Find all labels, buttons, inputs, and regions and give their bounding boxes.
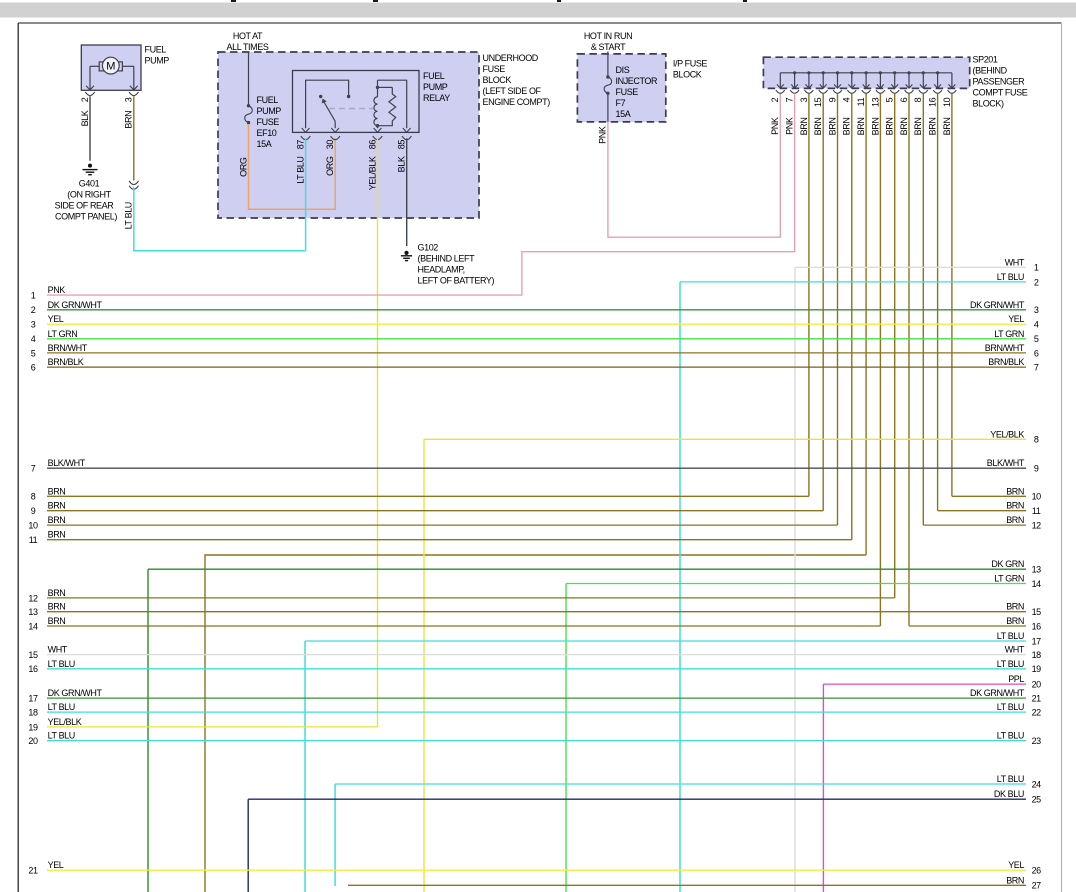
svg-text:FUSE: FUSE	[257, 117, 280, 127]
underhood fuse block label	[483, 53, 551, 107]
wire BLK/WHT row y=468.2	[47, 467, 1026, 469]
SP201 pin 9 connector	[833, 90, 842, 93]
svg-text:9: 9	[31, 506, 36, 516]
wire BRN row y=539.7	[47, 539, 852, 541]
svg-text:PNK: PNK	[785, 117, 795, 135]
svg-text:19: 19	[1032, 664, 1042, 674]
svg-text:PPL: PPL	[1008, 674, 1024, 684]
svg-text:YEL: YEL	[1008, 314, 1024, 324]
svg-text:LT BLU: LT BLU	[124, 202, 134, 229]
svg-text:5: 5	[1034, 334, 1039, 344]
wire BRN row y=496.3	[952, 495, 1026, 497]
wire YEL row y=870.2	[47, 869, 1026, 871]
svg-text:YEL/BLK: YEL/BLK	[367, 156, 377, 190]
SP201 pin 10 connector	[948, 90, 957, 93]
svg-text:LT BLU: LT BLU	[997, 631, 1024, 641]
svg-text:15: 15	[1032, 607, 1042, 617]
fuel pump internal wire pin 3	[130, 66, 138, 90]
svg-text:BRN: BRN	[48, 501, 66, 511]
svg-text:8: 8	[913, 97, 923, 102]
svg-text:BRN: BRN	[899, 118, 909, 136]
svg-text:BRN: BRN	[1006, 501, 1024, 511]
relay internal pin 87 contact	[302, 80, 351, 132]
svg-text:DK GRN/WHT: DK GRN/WHT	[48, 688, 103, 698]
wire BRN row y=510.7	[47, 510, 823, 512]
wire DK GRN row y=569.2	[148, 568, 1026, 570]
svg-text:BRN: BRN	[1006, 875, 1024, 885]
svg-text:WHT: WHT	[1005, 645, 1025, 655]
svg-text:5: 5	[885, 97, 895, 102]
svg-text:4: 4	[842, 97, 852, 102]
HOT IN RUN & START feed	[584, 31, 632, 52]
svg-text:BRN: BRN	[885, 118, 895, 136]
SP201 drop pin 5	[891, 71, 898, 88]
svg-text:10: 10	[1032, 492, 1042, 502]
svg-text:BLOCK: BLOCK	[673, 70, 702, 80]
SP201 drop pin 6	[906, 71, 913, 88]
svg-text:BRN/BLK: BRN/BLK	[988, 357, 1024, 367]
svg-text:30: 30	[325, 140, 335, 150]
svg-text:HOT AT: HOT AT	[233, 31, 263, 41]
svg-text:20: 20	[1032, 680, 1042, 690]
fuse F7 label	[616, 65, 659, 119]
svg-text:23: 23	[1032, 736, 1042, 746]
fuel pump internal wire pin 2	[86, 66, 94, 90]
svg-text:15: 15	[813, 97, 823, 107]
svg-text:16: 16	[928, 97, 938, 107]
svg-text:25: 25	[1032, 795, 1042, 805]
wire YEL/BLK row y=726.9	[47, 726, 378, 728]
svg-text:86: 86	[367, 140, 377, 150]
wire DK BLU vertical (row 25)	[247, 799, 249, 892]
svg-text:BRN: BRN	[1006, 486, 1024, 496]
wire BRN SP201 pin 15 down	[822, 93, 824, 510]
wire BRN SP201 pin 6 down	[908, 93, 910, 626]
svg-text:BRN: BRN	[842, 118, 852, 136]
svg-text:PASSENGER: PASSENGER	[973, 77, 1026, 87]
wire LT GRN row y=338.8	[47, 338, 1026, 340]
svg-text:F7: F7	[616, 98, 626, 108]
svg-text:BLK: BLK	[397, 156, 407, 172]
svg-text:8: 8	[1034, 435, 1039, 445]
svg-text:12: 12	[1032, 521, 1042, 531]
svg-text:18: 18	[28, 708, 38, 718]
svg-text:COMPT PANEL): COMPT PANEL)	[55, 211, 117, 221]
svg-text:LT GRN: LT GRN	[48, 329, 78, 339]
svg-text:PNK: PNK	[48, 285, 66, 295]
fuel pump pin 2 connector	[85, 92, 94, 96]
fuel pump relay label	[423, 71, 450, 103]
ground G401	[83, 164, 98, 175]
svg-text:BRN/WHT: BRN/WHT	[985, 343, 1025, 353]
wire LT BLU row y=641.0	[305, 640, 1026, 642]
SP201 bus bar	[780, 72, 952, 74]
svg-text:DK GRN/WHT: DK GRN/WHT	[970, 300, 1025, 310]
SP201 pin 15 connector	[819, 90, 828, 93]
svg-text:BRN: BRN	[48, 588, 66, 598]
SP201 drop pin 4	[848, 71, 855, 88]
svg-text:20: 20	[28, 736, 38, 746]
svg-text:7: 7	[1034, 363, 1039, 373]
wire LT BLU fuel pump to relay 87	[134, 187, 306, 251]
svg-text:17: 17	[28, 694, 38, 704]
wire BLK relay 85 to G102	[406, 138, 408, 246]
svg-text:2: 2	[1034, 277, 1039, 287]
svg-text:YEL: YEL	[48, 860, 64, 870]
svg-text:DK BLU: DK BLU	[994, 789, 1024, 799]
svg-text:RELAY: RELAY	[423, 93, 450, 103]
wire LT GRN row y=583.5	[566, 583, 1026, 585]
wire BRN SP201 pin 11 down	[865, 93, 867, 555]
svg-text:11: 11	[29, 535, 38, 545]
svg-text:ORG: ORG	[325, 156, 335, 176]
ground G102	[401, 251, 412, 261]
svg-text:4: 4	[31, 334, 36, 344]
svg-text:21: 21	[1032, 694, 1042, 704]
svg-text:PNK: PNK	[770, 117, 780, 135]
svg-text:LT BLU: LT BLU	[997, 272, 1024, 282]
svg-text:WHT: WHT	[48, 645, 68, 655]
svg-text:4: 4	[1034, 320, 1039, 330]
svg-text:PUMP: PUMP	[145, 56, 170, 66]
svg-text:EF10: EF10	[257, 128, 277, 138]
wire BRN row y=525.1	[47, 524, 838, 526]
svg-text:10: 10	[942, 97, 952, 107]
svg-text:BRN: BRN	[1006, 616, 1024, 626]
svg-text:DK GRN: DK GRN	[991, 559, 1024, 569]
SP201 pin 5 connector	[890, 90, 899, 93]
svg-text:BLK/WHT: BLK/WHT	[987, 458, 1025, 468]
wire BRN fuel pump to connector	[133, 96, 135, 180]
SP201 pin 11 connector	[862, 90, 871, 93]
wire PPL vertical (row 20)	[822, 684, 824, 892]
wire BRN row y=885.3	[348, 884, 1026, 886]
svg-text:ALL TIMES: ALL TIMES	[227, 42, 269, 52]
svg-text:13: 13	[1032, 565, 1042, 575]
SP201 label	[973, 55, 1028, 109]
svg-text:& START: & START	[591, 42, 626, 52]
svg-text:12: 12	[28, 593, 38, 603]
ground G401 label	[55, 178, 118, 221]
wire DK BLU row y=799.2	[248, 798, 1026, 800]
wire BRN row y=525.1	[923, 524, 1026, 526]
svg-text:(ON RIGHT: (ON RIGHT	[67, 189, 111, 199]
wire YEL row y=324.2	[47, 323, 1026, 325]
wire BRN row y=611.7	[47, 611, 1026, 613]
fuel pump pin 3 connector	[129, 92, 138, 96]
wire BRN SP201 pin 4 down	[851, 93, 853, 539]
svg-text:HOT IN RUN: HOT IN RUN	[584, 31, 632, 41]
SP201 pin 6 connector	[905, 90, 914, 93]
SP201 pin 7 connector	[790, 90, 799, 93]
wire YEL/BLK vertical (row 8)	[423, 439, 425, 892]
wire BRN row y=626.0	[909, 625, 1026, 627]
page border left	[17, 23, 19, 892]
wire YEL/BLK relay 86 down	[377, 138, 379, 727]
svg-text:ENGINE COMPT): ENGINE COMPT)	[483, 97, 551, 107]
svg-text:COMPT FUSE: COMPT FUSE	[973, 88, 1028, 98]
svg-text:SP201: SP201	[973, 55, 998, 65]
SP201 drop pin 2	[777, 73, 784, 88]
wire WHT row y=654.6	[47, 654, 1026, 656]
svg-text:LT BLU: LT BLU	[997, 731, 1024, 741]
svg-text:24: 24	[1032, 779, 1042, 789]
svg-text:11: 11	[1032, 506, 1041, 516]
top toolbar gray band	[0, 3, 1076, 18]
svg-text:9: 9	[827, 97, 837, 102]
svg-text:BRN: BRN	[48, 515, 66, 525]
svg-text:BRN: BRN	[1006, 602, 1024, 612]
cut-off title glyph fragments	[231, 0, 747, 2]
svg-text:1: 1	[1034, 263, 1039, 273]
svg-text:BLK: BLK	[80, 110, 90, 126]
svg-text:17: 17	[1032, 636, 1042, 646]
wire BRN SP201 pin 10 down	[951, 93, 953, 496]
svg-text:PUMP: PUMP	[423, 82, 448, 92]
svg-text:14: 14	[28, 621, 38, 631]
svg-text:BRN: BRN	[813, 118, 823, 136]
svg-text:7: 7	[785, 97, 795, 102]
svg-text:PNK: PNK	[598, 126, 608, 144]
svg-text:6: 6	[899, 97, 909, 102]
svg-text:1: 1	[31, 291, 36, 301]
svg-text:DIS: DIS	[616, 65, 630, 75]
SP201 drop pin 13	[877, 71, 884, 88]
svg-text:LT GRN: LT GRN	[994, 574, 1024, 584]
svg-text:FUEL: FUEL	[257, 95, 279, 105]
svg-text:LT BLU: LT BLU	[997, 702, 1024, 712]
svg-text:YEL: YEL	[1008, 860, 1024, 870]
svg-text:DK GRN/WHT: DK GRN/WHT	[970, 688, 1025, 698]
svg-text:BLOCK: BLOCK	[483, 75, 512, 85]
svg-text:5: 5	[31, 348, 36, 358]
wire PPL row y=684.1	[823, 683, 1026, 685]
svg-text:(BEHIND LEFT: (BEHIND LEFT	[418, 254, 476, 264]
wire WHT row y=267.3	[795, 266, 1026, 268]
svg-text:14: 14	[1032, 579, 1042, 589]
SP201 drop pin 9	[834, 71, 841, 88]
inline connector BRN/LT BLU	[129, 181, 138, 185]
ground G102 label	[418, 243, 495, 286]
splice pack SP201 box	[763, 57, 969, 88]
svg-text:FUSE: FUSE	[483, 64, 506, 74]
SP201 drop pin 10	[949, 73, 956, 88]
svg-text:YEL: YEL	[48, 314, 64, 324]
svg-text:YEL/BLK: YEL/BLK	[48, 717, 82, 727]
relay internal pin 85	[378, 80, 411, 132]
wire BRN splice branch horizontal	[205, 555, 866, 892]
svg-text:LEFT OF BATTERY): LEFT OF BATTERY)	[418, 276, 495, 286]
wire fuse F7 to box edge	[607, 95, 609, 122]
svg-text:FUEL: FUEL	[423, 71, 445, 81]
SP201 drop pin 11	[863, 71, 870, 88]
I/P fuse block label	[673, 59, 708, 80]
svg-text:BRN/BLK: BRN/BLK	[48, 357, 84, 367]
wire DK GRN/WHT row y=698.1	[47, 697, 1026, 699]
wire BRN SP201 pin 13 down	[879, 93, 881, 626]
svg-text:WHT: WHT	[1005, 257, 1025, 267]
fuel pump relay box	[293, 71, 420, 133]
svg-text:FUSE: FUSE	[616, 87, 639, 97]
svg-text:16: 16	[28, 664, 38, 674]
svg-text:BRN: BRN	[870, 118, 880, 136]
svg-text:BRN: BRN	[799, 118, 809, 136]
page border right	[1061, 23, 1063, 892]
wire DK GRN/WHT row y=309.8	[47, 309, 1026, 311]
fuel pump box	[81, 45, 141, 90]
fuel pump motor M	[90, 57, 134, 74]
svg-text:2: 2	[770, 97, 780, 102]
svg-text:(LEFT SIDE OF: (LEFT SIDE OF	[483, 86, 542, 96]
SP201 drop pin 16	[934, 71, 941, 88]
HOT AT ALL TIMES feed	[227, 31, 269, 52]
wire LT GRN vertical	[565, 584, 567, 892]
wire BRN row y=626.0	[47, 625, 880, 627]
svg-text:18: 18	[1032, 650, 1042, 660]
svg-text:(BEHIND: (BEHIND	[973, 66, 1008, 76]
relay switch arm pin 30	[319, 95, 339, 132]
wire LT BLU vertical (row 2)	[679, 282, 681, 892]
wire feed to fuse EF10	[248, 52, 250, 106]
wire BRN SP201 pin 8 down	[922, 93, 924, 525]
svg-text:9: 9	[1034, 464, 1039, 474]
svg-text:2: 2	[80, 97, 90, 102]
SP201 pin 8 connector	[919, 90, 928, 93]
SP201 drop pin 8	[920, 71, 927, 88]
svg-text:19: 19	[28, 722, 38, 732]
svg-text:HEADLAMP,: HEADLAMP,	[418, 265, 465, 275]
svg-text:LT BLU: LT BLU	[48, 702, 75, 712]
svg-text:6: 6	[31, 363, 36, 373]
svg-text:27: 27	[1032, 881, 1042, 891]
svg-text:13: 13	[28, 607, 38, 617]
fuel pump label	[145, 45, 170, 66]
svg-text:22: 22	[1032, 708, 1042, 718]
wire BRN SP201 pin 16 down	[937, 93, 939, 510]
wire BRN row y=597.9	[47, 597, 895, 599]
svg-text:BRN: BRN	[856, 118, 866, 136]
svg-text:BRN: BRN	[48, 486, 66, 496]
svg-text:INJECTOR: INJECTOR	[616, 76, 659, 86]
svg-text:11: 11	[856, 97, 866, 106]
relay pin 87 connector	[301, 136, 310, 140]
wire LT BLU vertical (row 24)	[334, 784, 336, 886]
wire WHT vertical (row 1)	[794, 267, 796, 892]
svg-text:26: 26	[1032, 866, 1042, 876]
SP201 pin 4 connector	[847, 90, 856, 93]
svg-text:85: 85	[397, 140, 407, 150]
svg-text:UNDERHOOD: UNDERHOOD	[483, 53, 539, 63]
wire BRN row y=510.7	[938, 510, 1026, 512]
svg-text:2: 2	[31, 305, 36, 315]
relay pin 30 connector	[331, 136, 340, 140]
underhood fuse block	[218, 52, 479, 218]
svg-text:BRN: BRN	[942, 118, 952, 136]
svg-text:G401: G401	[79, 178, 100, 188]
svg-text:16: 16	[1032, 621, 1042, 631]
SP201 pin 13 connector	[876, 90, 885, 93]
page border top	[18, 22, 1061, 24]
svg-text:3: 3	[124, 97, 134, 102]
svg-text:BRN: BRN	[124, 111, 134, 129]
SP201 drop pin 15	[820, 71, 827, 88]
svg-text:LT GRN: LT GRN	[994, 329, 1024, 339]
I/P fuse block	[577, 54, 665, 122]
svg-text:BLOCK): BLOCK)	[973, 99, 1005, 109]
svg-text:LT BLU: LT BLU	[997, 774, 1024, 784]
wire LT BLU vertical (row 17)	[304, 641, 306, 892]
svg-text:ORG: ORG	[238, 157, 248, 177]
svg-text:15A: 15A	[257, 139, 272, 149]
svg-text:LT BLU: LT BLU	[48, 659, 75, 669]
relay coil suppression resistor	[378, 87, 396, 125]
wire PNK SP201 pin 7 to row 1	[47, 93, 795, 295]
svg-text:87: 87	[296, 140, 306, 150]
SP201 pin 16 connector	[933, 90, 942, 93]
svg-text:BRN: BRN	[48, 616, 66, 626]
SP201 pin 3 connector	[805, 90, 814, 93]
svg-text:13: 13	[870, 97, 880, 107]
SP201 pin 2 connector	[776, 90, 785, 93]
fuse EF10 15A	[247, 104, 250, 107]
relay actuator dashed link	[329, 108, 373, 110]
svg-text:BRN: BRN	[928, 118, 938, 136]
wire ORG fuse to relay 30	[249, 124, 336, 209]
wire LT BLU row y=784.0	[335, 783, 1026, 785]
svg-text:I/P FUSE: I/P FUSE	[673, 59, 708, 69]
SP201 drop pin 7	[791, 71, 798, 88]
wire BRN/WHT row y=352.9	[47, 352, 1026, 354]
wire LT BLU row y=668.8	[47, 668, 1026, 670]
wire BLK fuel pump to G401	[89, 96, 91, 161]
svg-text:BRN/WHT: BRN/WHT	[48, 343, 88, 353]
svg-text:BRN: BRN	[48, 530, 66, 540]
svg-text:DK GRN/WHT: DK GRN/WHT	[48, 300, 103, 310]
svg-text:G102: G102	[418, 243, 439, 253]
wire feed to fuse F7	[607, 52, 609, 77]
wire DK GRN vertical	[147, 569, 149, 892]
svg-text:6: 6	[1034, 348, 1039, 358]
SP201 drop pin 3	[806, 71, 813, 88]
svg-text:BRN: BRN	[913, 118, 923, 136]
svg-text:YEL/BLK: YEL/BLK	[990, 429, 1024, 439]
wire YEL/BLK row y=439.3	[424, 438, 1026, 440]
wire PNK F7 to SP201 pin 2	[608, 94, 780, 237]
svg-text:3: 3	[1034, 305, 1039, 315]
fuse EF10 label	[257, 95, 282, 149]
wire LT BLU row y=740.6	[47, 740, 1026, 742]
svg-text:PUMP: PUMP	[257, 106, 282, 116]
wire BRN/BLK row y=367.1	[47, 366, 1026, 368]
svg-text:15A: 15A	[616, 109, 631, 119]
wire BRN SP201 pin 9 down	[837, 93, 839, 525]
svg-text:10: 10	[28, 521, 38, 531]
relay pin 86 connector	[373, 136, 382, 140]
svg-text:LT BLU: LT BLU	[296, 157, 306, 184]
wire LT BLU row y=712.1	[47, 711, 1026, 713]
svg-text:LT BLU: LT BLU	[48, 731, 75, 741]
svg-text:21: 21	[28, 866, 38, 876]
svg-text:LT BLU: LT BLU	[997, 659, 1024, 669]
wire LT BLU relay 87 down	[305, 138, 307, 250]
relay pin 85 connector	[402, 136, 411, 140]
svg-text:BRN: BRN	[827, 118, 837, 136]
svg-text:SIDE OF REAR: SIDE OF REAR	[55, 200, 115, 210]
svg-text:15: 15	[28, 650, 38, 660]
wire LT BLU row y=281.9	[680, 281, 1026, 283]
svg-text:BRN: BRN	[48, 602, 66, 612]
svg-text:3: 3	[31, 320, 36, 330]
